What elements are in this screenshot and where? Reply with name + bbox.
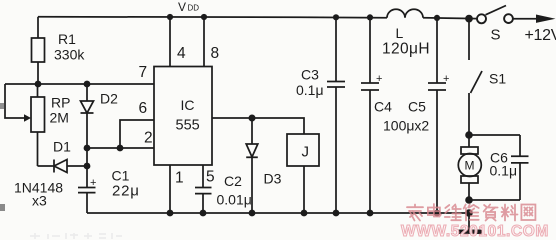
wire pin4 stub [169,17,171,67]
svg-text:WWW.520101.COM: WWW.520101.COM [401,223,549,240]
capacitor C2 [195,165,252,213]
wire pin8 stub [203,17,205,67]
svg-text:8: 8 [211,45,220,62]
node junction pin8 [201,14,207,20]
svg-text:120μH: 120μH [382,41,430,58]
svg-text:+: + [443,73,449,85]
svg-text:C4: C4 [374,99,392,115]
node junction motor top [465,131,473,139]
wire bottom ground rail [87,212,469,214]
capacitor C5 [383,18,449,213]
svg-text:C1: C1 [112,168,130,184]
svg-text:V: V [178,0,186,14]
svg-text:22μ: 22μ [112,183,140,200]
svg-text:M: M [465,159,475,173]
svg-text:330k: 330k [54,47,85,63]
node junction C3 bottom [333,210,340,217]
svg-text:100μx2: 100μx2 [383,118,429,134]
svg-text:+: + [90,177,96,189]
svg-text:R1: R1 [58,31,76,47]
svg-text:7: 7 [139,64,148,81]
wire top rail right of L [423,17,478,20]
svg-text:+: + [376,73,382,85]
svg-text:D1: D1 [53,139,71,155]
svg-text:4: 4 [177,45,186,62]
node junction pin1 bottom [167,210,174,217]
node junction J bottom [301,210,308,217]
node junction D3 bottom [249,210,256,217]
wire pin3 output [212,117,252,119]
svg-text:C5: C5 [408,99,426,115]
wire pin6 [120,120,154,148]
diode D3 [246,118,281,213]
svg-text:555: 555 [176,118,200,134]
node junction R1 bottom [35,81,42,88]
svg-text:+12V: +12V [525,27,556,44]
svg-text:D2: D2 [100,91,118,107]
svg-text:C3: C3 [301,67,319,83]
svg-text:2M: 2M [50,110,69,126]
svg-text:L: L [396,25,404,41]
svg-text:0.01μ: 0.01μ [217,192,252,208]
scan edge artifacts [0,103,5,211]
node junction pin5 bottom [200,210,207,217]
svg-text:RP: RP [51,95,70,111]
node VDD label [178,0,199,14]
wire pin7 horizontal [5,83,154,85]
svg-text:1: 1 [175,170,184,187]
wire +12V arrow [513,15,556,45]
capacitor C1 [78,148,140,213]
inductor L [387,9,423,17]
watermark line 1 (Chinese site name, vector strokes) [407,204,535,221]
svg-text:0.1μ: 0.1μ [490,163,518,179]
wire top VDD rail [38,17,387,18]
node junction pin6 drop [117,145,124,152]
node junction C4 bottom [367,210,374,217]
inductor L labels [382,25,430,58]
svg-text:2: 2 [144,130,153,147]
node junction D1/C1 [84,163,91,170]
IC U1 555 timer [154,67,212,166]
wire pin2 horizontal [87,147,154,149]
node junction C5 bottom [434,210,441,217]
node junction pin2 [84,145,91,152]
faint caption bottom-left [30,233,122,239]
node junction rail end [465,209,473,217]
diode D2 [81,81,119,148]
svg-text:5: 5 [206,169,215,186]
node junction C4 top [367,14,373,20]
node junction S1 branch [465,15,473,23]
svg-text:S: S [491,27,501,44]
node junction C5 top [434,15,440,21]
svg-text:D3: D3 [264,171,282,187]
node junction C6 bottom [465,196,473,204]
pin number labels [139,45,220,187]
ground [458,213,483,234]
capacitor C6 [469,135,529,200]
switch S1 [469,19,506,135]
svg-text:C2: C2 [224,173,242,189]
diode D1 [14,139,87,209]
svg-text:6: 6 [139,100,148,117]
resistor R1 [32,17,86,84]
capacitor C3 [296,17,345,213]
svg-text:S1: S1 [489,71,506,87]
switch S [477,6,513,44]
svg-text:IC: IC [181,97,195,113]
wire pin1 stub [169,165,171,213]
svg-text:J: J [302,144,310,161]
motor M [458,135,481,200]
node junction C3 top [333,14,339,20]
svg-text:DD: DD [188,4,200,13]
svg-text:x3: x3 [32,193,47,209]
capacitor C4 [361,17,392,213]
potentiometer RP [5,84,70,166]
node junction pin3 [249,115,256,122]
relay J [252,118,319,213]
node junction pin4 [167,14,173,20]
svg-text:0.1μ: 0.1μ [296,82,324,98]
